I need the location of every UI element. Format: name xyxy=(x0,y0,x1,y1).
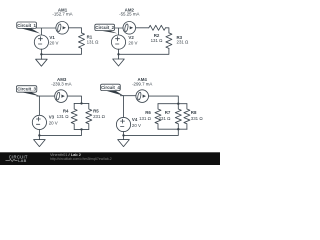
wire R2 to R3 top xyxy=(166,28,169,33)
junction node circuit 4 xyxy=(122,134,124,136)
wire flag4 node down to V4 top xyxy=(123,96,125,118)
resistor R1 xyxy=(79,33,85,49)
junction bottom rail circuit 3 xyxy=(80,128,82,130)
top rail circuit 4 xyxy=(158,103,187,105)
ground circuit 1 xyxy=(36,59,48,66)
node flag Circuit_4 xyxy=(101,84,124,96)
footer logo zigzag xyxy=(6,159,18,161)
svg-text:231 Ω: 231 Ω xyxy=(93,114,106,119)
resistor R5 xyxy=(86,103,92,129)
voltage source V2 xyxy=(111,35,125,49)
svg-text:131 Ω: 131 Ω xyxy=(151,38,164,43)
svg-text:-152.7 mA: -152.7 mA xyxy=(52,12,72,17)
ammeter AM3 xyxy=(55,90,68,103)
wire R3 bottom to node xyxy=(119,48,169,54)
junction top rail circuit 4 xyxy=(177,103,179,105)
svg-text:R5: R5 xyxy=(93,108,99,113)
svg-text:R8: R8 xyxy=(191,110,197,115)
wire flag3 node down to V3 top xyxy=(38,96,40,115)
svg-text:R7: R7 xyxy=(165,110,171,115)
node flag Circuit_1 xyxy=(17,22,40,34)
svg-text:-239.3 mA: -239.3 mA xyxy=(51,82,71,87)
svg-text:20 V: 20 V xyxy=(49,120,58,125)
voltage source V1 xyxy=(34,35,48,49)
wire R1 bottom to node xyxy=(41,48,81,54)
top rail circuit 3 xyxy=(74,102,89,104)
svg-text:Circuit_4: Circuit_4 xyxy=(101,85,120,90)
resistor R8 xyxy=(184,104,190,130)
resistor R7 xyxy=(175,104,181,130)
wire return circuit 3 xyxy=(39,129,81,135)
wire V3 bottom to ground xyxy=(38,130,40,140)
svg-text:Circuit_1: Circuit_1 xyxy=(17,23,36,28)
svg-text:R4: R4 xyxy=(63,108,69,113)
wire V2 top to AM2 xyxy=(115,28,124,35)
svg-text:331 Ω: 331 Ω xyxy=(191,116,204,121)
junction node circuit 2 xyxy=(117,53,119,55)
svg-text:V1: V1 xyxy=(49,35,55,40)
svg-text:http://circuitlab.com/c/hm3fmq: http://circuitlab.com/c/hm3fmq67ew/lab-2 xyxy=(50,157,112,161)
footer bar xyxy=(0,152,220,165)
svg-text:R6: R6 xyxy=(145,110,151,115)
wire node to AM3 xyxy=(37,95,55,97)
junction bottom rail circuit 4 xyxy=(177,128,179,130)
ammeter AM1 xyxy=(56,22,69,35)
wire AM2 to R2 xyxy=(136,27,149,29)
svg-text:V4: V4 xyxy=(132,117,138,122)
svg-text:LAB: LAB xyxy=(18,158,26,163)
svg-text:131 Ω: 131 Ω xyxy=(87,40,100,45)
resistor R4 xyxy=(71,103,77,129)
wire V4 bottom to ground xyxy=(123,132,125,140)
wire V1 top to AM1 xyxy=(37,28,56,35)
bottom rail circuit 3 xyxy=(74,128,89,130)
svg-text:20 V: 20 V xyxy=(132,123,141,128)
svg-text:-299.7 mA: -299.7 mA xyxy=(132,82,152,87)
wire AM1 to R1 top xyxy=(69,28,82,33)
svg-text:231 Ω: 231 Ω xyxy=(177,40,190,45)
ammeter AM4 xyxy=(136,90,149,103)
wire AM4 to parallel feed xyxy=(149,96,179,104)
bottom rail circuit 4 xyxy=(158,128,187,130)
wire return circuit 4 xyxy=(124,129,179,135)
ground circuit 2 xyxy=(113,59,125,66)
wire node to AM4 xyxy=(120,95,135,97)
svg-text:131 Ω: 131 Ω xyxy=(139,116,152,121)
resistor R2 xyxy=(149,25,166,30)
wire AM3 to parallel feed xyxy=(67,96,81,103)
svg-text:V2: V2 xyxy=(128,35,134,40)
voltage source V4 xyxy=(116,117,130,131)
svg-text:20 V: 20 V xyxy=(49,41,58,46)
wire V2 bottom to ground xyxy=(118,49,120,59)
svg-text:231 Ω: 231 Ω xyxy=(159,116,172,121)
ground circuit 3 xyxy=(34,140,46,147)
svg-text:Circuit_3: Circuit_3 xyxy=(17,87,36,92)
junction node circuit 1 xyxy=(40,53,42,55)
svg-text:-55.25 mA: -55.25 mA xyxy=(119,12,139,17)
svg-text:Circuit_2: Circuit_2 xyxy=(95,25,114,30)
svg-text:20 V: 20 V xyxy=(128,41,137,46)
voltage source V3 xyxy=(32,115,46,129)
resistor R3 xyxy=(166,33,172,49)
ammeter AM2 xyxy=(123,22,136,35)
ground circuit 4 xyxy=(118,140,130,147)
resistor R6 xyxy=(155,104,161,130)
node flag Circuit_3 xyxy=(16,86,39,96)
svg-text:131 Ω: 131 Ω xyxy=(57,114,70,119)
junction node circuit 3 xyxy=(38,134,40,136)
junction top rail circuit 3 xyxy=(80,102,82,104)
wire V1 bottom to ground xyxy=(40,49,42,59)
svg-text:V3: V3 xyxy=(49,115,55,120)
node flag Circuit_2 xyxy=(95,24,117,33)
